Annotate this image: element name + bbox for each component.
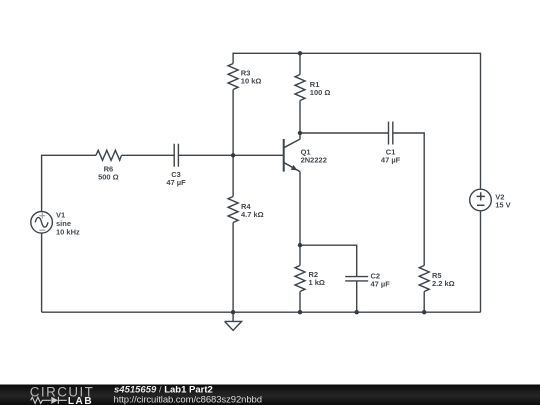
source V1 minus sign bbox=[39, 229, 45, 231]
wire: R4 bottom to bottom rail bbox=[232, 223, 234, 313]
source V1 plus sign bbox=[39, 213, 45, 219]
wire: V2 bottom to bottom rail bbox=[480, 211, 482, 313]
wire: V1 bottom to bottom rail bbox=[41, 233, 43, 312]
svg-text:4.7 kΩ: 4.7 kΩ bbox=[241, 210, 264, 219]
wire: C2 bottom plate to bottom rail bbox=[356, 281, 358, 312]
svg-text:15 V: 15 V bbox=[495, 200, 510, 209]
transistor Q1 emitter arrow bbox=[291, 165, 298, 171]
label R2 / 1 kΩ bbox=[309, 270, 325, 287]
capacitor C3 plates bbox=[174, 144, 178, 167]
label Q1 / 2N2222 bbox=[301, 147, 327, 164]
wire: emitter node across to C2 top bbox=[300, 245, 357, 276]
source V2 circle bbox=[470, 189, 492, 211]
wire: C3 to Q1 base (through node at x=233) bbox=[178, 154, 283, 156]
label V1 / sine / 10 kHz bbox=[56, 210, 80, 236]
node: top rail / R1 junction bbox=[298, 51, 302, 55]
capacitor C2 plates bbox=[345, 277, 368, 281]
svg-text:500 Ω: 500 Ω bbox=[98, 172, 119, 181]
svg-text:10 kΩ: 10 kΩ bbox=[241, 77, 262, 86]
svg-text:100 Ω: 100 Ω bbox=[310, 88, 331, 97]
wire: R1 bottom to Q1 collector bbox=[299, 101, 301, 140]
wire: right vertical from top rail to V2 bbox=[480, 53, 482, 190]
node: bottom rail / C2 junction bbox=[355, 310, 359, 314]
wire: R2 bottom to bottom rail bbox=[299, 292, 301, 313]
label R3 / 10 kΩ bbox=[241, 69, 262, 86]
resistor R6 bbox=[96, 150, 122, 160]
svg-text:10 kHz: 10 kHz bbox=[56, 227, 80, 236]
label C3 / 47 µF bbox=[166, 170, 186, 187]
svg-text:1 kΩ: 1 kΩ bbox=[309, 278, 325, 287]
wire: left vertical from main node down to V1 top bbox=[41, 155, 43, 211]
logo: LAB wordmark bbox=[68, 396, 93, 405]
node: bottom rail / ground junction bbox=[231, 310, 235, 314]
source V1 sine wave bbox=[35, 217, 48, 227]
node: base bias junction (R3/R4/base) bbox=[231, 153, 235, 157]
label R4 / 4.7 kΩ bbox=[241, 202, 264, 219]
svg-text:47 µF: 47 µF bbox=[381, 156, 401, 165]
source V2 minus sign bbox=[477, 204, 485, 206]
wire: bottom rail bbox=[42, 311, 481, 313]
node: bottom rail / R5 junction bbox=[422, 310, 426, 314]
resistor R1 bbox=[295, 75, 305, 101]
transistor Q1 collector stroke bbox=[284, 139, 300, 147]
wire: Q1 emitter down to R2 top (through node y=245) bbox=[299, 172, 301, 266]
label V2 / 15 V bbox=[495, 192, 510, 209]
source V2 plus sign bbox=[477, 192, 485, 200]
svg-text:47 µF: 47 µF bbox=[166, 178, 186, 187]
node: bottom rail / R2 junction bbox=[298, 310, 302, 314]
transistor Q1 base bar bbox=[283, 139, 285, 172]
wire: top rail bbox=[233, 52, 480, 54]
svg-text:http://circuitlab.com/c8683sz9: http://circuitlab.com/c8683sz92nbbd bbox=[114, 394, 262, 405]
svg-text:2.2 kΩ: 2.2 kΩ bbox=[432, 279, 455, 288]
label C1 / 47 µF bbox=[381, 148, 401, 165]
logo: CIRCUIT wordmark bbox=[30, 384, 94, 399]
transistor Q1 emitter stroke bbox=[284, 163, 300, 172]
svg-text:47 µF: 47 µF bbox=[371, 279, 391, 288]
footer bar background bbox=[0, 385, 540, 405]
wire: collector node to C1 left plate bbox=[300, 132, 389, 134]
wire: R6 to C3 bbox=[122, 154, 175, 156]
label R1 / 100 Ω bbox=[310, 80, 331, 97]
footer title line: s4515659 / Lab1 Part2 bbox=[114, 384, 213, 395]
resistor R4 bbox=[228, 197, 238, 223]
ground symbol bbox=[225, 312, 242, 330]
node: collector / C1 junction bbox=[298, 131, 302, 135]
svg-text:LAB: LAB bbox=[68, 396, 93, 405]
footer url line: http://circuitlab.com/c8683sz92nbbd bbox=[114, 394, 262, 405]
source V1 circle bbox=[31, 212, 53, 234]
resistor R3 bbox=[228, 64, 238, 90]
capacitor C1 plates bbox=[389, 122, 393, 145]
svg-text:2N2222: 2N2222 bbox=[301, 156, 327, 165]
resistor R5 bbox=[419, 266, 429, 292]
logo: diode glyph bbox=[51, 397, 67, 404]
label R6 / 500 Ω bbox=[98, 164, 119, 181]
wire: top rail node down to R1 top bbox=[299, 53, 301, 74]
label C2 / 47 µF bbox=[371, 271, 391, 288]
label R5 / 2.2 kΩ bbox=[432, 271, 455, 288]
resistor R2 bbox=[295, 266, 305, 292]
wire: main horizontal left segment to R6 bbox=[41, 154, 96, 156]
wire: R5 bottom to bottom rail bbox=[423, 292, 425, 313]
svg-text:V1: V1 bbox=[56, 210, 65, 219]
logo: resistor zigzag glyph bbox=[31, 397, 51, 403]
wire: top rail to R3 top bbox=[232, 53, 234, 64]
wire: R3 bottom through base node to R4 top bbox=[232, 90, 234, 197]
node: emitter / C2 junction bbox=[298, 243, 302, 247]
wire: C1 right plate to corner bbox=[393, 133, 424, 266]
